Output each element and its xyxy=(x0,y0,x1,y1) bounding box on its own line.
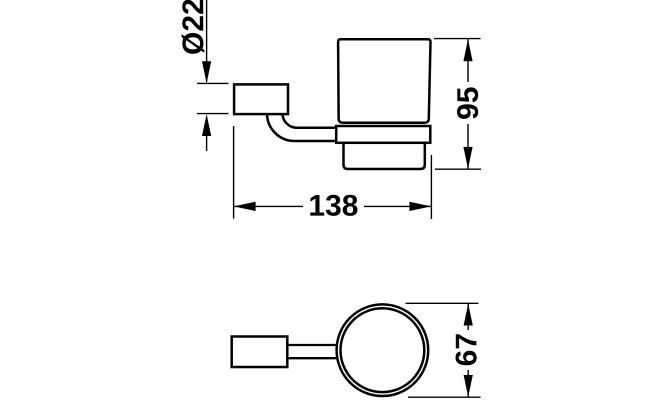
dimension 138: dimension line left segment xyxy=(234,205,303,207)
dimension Ø22: dimension line lower tail xyxy=(206,133,208,151)
dimension 67: dimension line lower segment xyxy=(467,370,469,397)
glass base (below holder ring) xyxy=(344,142,425,169)
dimension label 67 xyxy=(456,334,477,365)
dimension Ø22: upper arrowhead (points down) xyxy=(202,61,211,83)
wall plate (top view) xyxy=(232,337,288,368)
dimension 95: upper arrowhead (points up) xyxy=(463,39,472,61)
dimension 95: lower arrowhead (points down) xyxy=(463,147,472,169)
arm (top view) xyxy=(287,345,340,358)
dimension 67: upper arrowhead (points up) xyxy=(464,304,473,326)
ring outer circle (top view) xyxy=(337,304,429,396)
dimension Ø22: extension line bottom xyxy=(197,113,229,115)
ring inner circle (top view) xyxy=(341,308,425,392)
dimension Ø22: lower arrowhead (points up) xyxy=(202,114,211,136)
wall bracket (side view) xyxy=(234,84,288,114)
dimension 67: extension line bottom xyxy=(408,396,481,398)
dimension label 138 xyxy=(310,195,357,216)
dimension 95: dimension line lower segment xyxy=(467,124,469,169)
dimension 95: dimension line upper segment xyxy=(467,39,469,82)
dimension 67: dimension line upper segment xyxy=(467,303,469,330)
dimension label Ø22 xyxy=(182,0,205,54)
dimension 95: extension line top xyxy=(434,38,481,40)
dimension 138: right arrowhead (points right) xyxy=(409,202,431,211)
dimension Ø22: extension line top xyxy=(197,82,229,84)
holder ring plate (side view) xyxy=(336,126,430,143)
glass tumbler (side view, upper part) xyxy=(338,39,430,123)
dimension label 95 xyxy=(457,87,478,119)
dimension 138: left arrowhead (points left) xyxy=(234,202,256,211)
arm tube (side view) xyxy=(267,114,338,142)
dimension 138: dimension line right segment xyxy=(364,205,431,207)
dimension 138: extension line right xyxy=(430,155,432,219)
dimension 67: extension line top xyxy=(406,302,479,304)
dimension Ø22: dimension line upper xyxy=(206,0,208,82)
dimension 67: lower arrowhead (points down) xyxy=(464,375,473,397)
dimension 95: extension line bottom xyxy=(435,168,481,170)
dimension 138: extension line left xyxy=(233,126,235,219)
